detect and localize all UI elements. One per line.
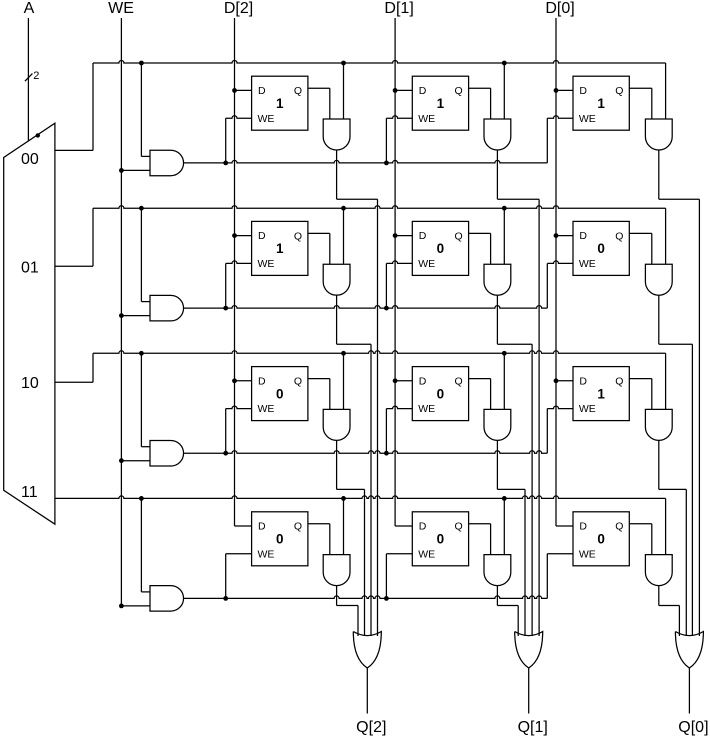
wire decoder output 1 stub bbox=[55, 265, 93, 267]
wire row 2 col 1 elbow to bus bbox=[497, 488, 525, 490]
svg-text:Q[1]: Q[1] bbox=[518, 719, 548, 736]
svg-text:WE: WE bbox=[418, 113, 435, 125]
wire row 0 col 0 WE pin link bbox=[226, 116, 252, 119]
wire D[2] to row 3 D pin bbox=[235, 525, 252, 527]
wire row 0 col 0 select drop bbox=[343, 63, 345, 119]
svg-text:10: 10 bbox=[21, 375, 39, 392]
wire row 3 col 0 WE pin link bbox=[226, 553, 252, 555]
wire row 3 col 0 elbow to bus bbox=[337, 605, 358, 607]
wire row 2 col 1 select drop bbox=[503, 353, 505, 409]
svg-text:Q: Q bbox=[455, 230, 463, 242]
wire row 1 write-enable line bbox=[184, 306, 548, 309]
svg-text:D: D bbox=[419, 230, 427, 242]
wire row 3 select line bbox=[55, 496, 666, 499]
wire row 1 col 0 bus vertical to OR bbox=[370, 344, 372, 636]
AND gate row 1 col 2 output gate bbox=[645, 264, 672, 295]
wire row 0 select line bbox=[93, 61, 666, 64]
node row 3 WE line col 0 junction bbox=[223, 596, 228, 601]
AND gate row 1 col 0 output gate bbox=[323, 264, 350, 295]
wire D[0] to row 1 D pin bbox=[556, 235, 573, 237]
wire row 1 col 2 elbow to bus bbox=[659, 343, 693, 345]
input pin D[1] bbox=[384, 0, 413, 17]
svg-text:0: 0 bbox=[597, 241, 605, 256]
wire row 2 col 0 WE pin link bbox=[226, 406, 252, 409]
decoder output label 10 bbox=[21, 375, 39, 392]
wire D[2] data column bbox=[234, 18, 236, 526]
svg-text:D: D bbox=[419, 85, 427, 97]
wire row 0 col 2 WE pin link bbox=[547, 116, 573, 119]
node D[1] row 2 D junction bbox=[393, 378, 398, 383]
wire row 1 select line bbox=[93, 206, 666, 209]
wire row 1 col 1 elbow to bus bbox=[497, 343, 532, 345]
decoder output label 00 bbox=[21, 151, 39, 168]
wire row 1 col 0 elbow to bus bbox=[337, 343, 371, 345]
svg-text:WE: WE bbox=[258, 403, 275, 415]
wire row 2 col 1 WE riser bbox=[385, 409, 387, 454]
wire row 2 col 0 bus vertical to OR bbox=[364, 489, 366, 636]
D flip-flop U8 row 2 bit D[2] (value 0) bbox=[252, 367, 308, 421]
svg-text:Q: Q bbox=[294, 230, 302, 242]
svg-text:D: D bbox=[258, 375, 266, 387]
output pin Q[2] bbox=[356, 719, 386, 736]
wire Q[2] output bbox=[366, 668, 368, 714]
svg-text:WE: WE bbox=[418, 403, 435, 415]
wire row 1 col 1 WE riser bbox=[385, 263, 387, 308]
node row 2 select / col 1 gate junction bbox=[502, 351, 507, 356]
wire D[1] to row 1 D pin bbox=[395, 235, 412, 237]
wire row 3 col 1 select drop bbox=[503, 498, 505, 554]
wire row 3 col 1 WE pin link bbox=[386, 553, 412, 555]
svg-text:2: 2 bbox=[33, 70, 39, 82]
D flip-flop U10 row 2 bit D[0] (value 1) bbox=[573, 367, 629, 421]
AND gate row 3 write enable (WE AND select) bbox=[150, 586, 184, 612]
wire WE to row 3 write AND input bbox=[121, 605, 150, 607]
wire row 1 col 0 select drop bbox=[343, 208, 345, 264]
wire D[1] to row 3 D pin bbox=[395, 525, 412, 527]
wire row 1 col 0 gate output drop bbox=[336, 295, 338, 344]
svg-text:Q: Q bbox=[615, 85, 623, 97]
wire WE to row 0 write AND input bbox=[121, 169, 150, 171]
node row 1 select / col 1 gate junction bbox=[502, 206, 507, 211]
svg-text:Q: Q bbox=[615, 521, 623, 533]
wire row 3 col 2 gate output drop bbox=[658, 586, 660, 606]
wire row 2 col 0 Q out bbox=[308, 379, 330, 410]
wire D[0] data column bbox=[555, 18, 557, 526]
wire Q[0] output bbox=[688, 668, 690, 714]
wire row 1 col 1 bus vertical to OR bbox=[531, 344, 533, 636]
svg-text:0: 0 bbox=[437, 386, 445, 401]
wire row 1 col 2 WE riser bbox=[546, 263, 548, 308]
node WE column row 1 junction bbox=[119, 313, 124, 318]
wire row 1 col 0 WE riser bbox=[225, 263, 227, 308]
D flip-flop U3 row 0 bit D[1] (value 1) bbox=[412, 76, 468, 130]
wire D[0] to row 0 D pin bbox=[556, 89, 573, 91]
svg-text:WE: WE bbox=[579, 403, 596, 415]
svg-text:0: 0 bbox=[437, 532, 445, 547]
wire row 0 col 2 select drop bbox=[665, 63, 667, 119]
wire row 2 col 1 Q out bbox=[469, 379, 491, 410]
wire row 3 col 2 elbow to bus bbox=[659, 605, 680, 607]
wire row 2 col 1 bus vertical to OR bbox=[524, 489, 526, 636]
D flip-flop U6 row 1 bit D[1] (value 0) bbox=[412, 221, 468, 275]
wire row 0 col 1 select drop bbox=[503, 63, 505, 119]
svg-text:D: D bbox=[258, 85, 266, 97]
wire row 1 col 1 WE pin link bbox=[386, 261, 412, 264]
svg-text:A: A bbox=[24, 0, 35, 17]
svg-text:D: D bbox=[258, 230, 266, 242]
wire row 0 col 0 elbow to bus bbox=[337, 198, 378, 200]
wire row 2 col 2 WE riser bbox=[546, 409, 548, 454]
AND gate row 2 col 1 output gate bbox=[484, 409, 511, 440]
node row 0 select / col 1 gate junction bbox=[502, 61, 507, 66]
svg-text:WE: WE bbox=[579, 548, 596, 560]
wire row 0 col 2 bus vertical to OR bbox=[698, 199, 700, 636]
wire decoder output 2 riser bbox=[92, 353, 94, 382]
wire row 1 col 2 Q out bbox=[629, 233, 652, 264]
wire row 2 select line bbox=[93, 351, 666, 354]
svg-text:11: 11 bbox=[21, 484, 38, 501]
wire row 1 col 2 select drop bbox=[665, 208, 667, 264]
wire row 0 col 2 gate output drop bbox=[658, 150, 660, 199]
svg-text:Q: Q bbox=[615, 376, 623, 388]
wire row 1 col 2 bus vertical to OR bbox=[691, 344, 693, 636]
wire row 1 select drop to write AND bbox=[140, 208, 142, 301]
node row 2 WE line col 1 junction bbox=[384, 451, 389, 456]
wire decoder output 1 riser bbox=[92, 208, 94, 266]
wire row 3 col 0 gate output drop bbox=[336, 586, 338, 606]
AND gate row 0 col 2 output gate bbox=[645, 119, 672, 150]
node WE column row 3 junction bbox=[119, 604, 124, 609]
svg-text:Q: Q bbox=[455, 85, 463, 97]
node row 3 select / col 1 gate junction bbox=[502, 496, 507, 501]
node D[1] row 0 D junction bbox=[393, 88, 398, 93]
svg-text:D[2]: D[2] bbox=[224, 0, 253, 17]
wire row 2 col 0 elbow to bus bbox=[337, 488, 365, 490]
input pin D[2] bbox=[224, 0, 253, 17]
wire row 2 write-enable line bbox=[184, 451, 548, 453]
D flip-flop U4 row 0 bit D[0] (value 1) bbox=[573, 76, 629, 130]
wire row 0 write-enable line bbox=[184, 160, 548, 163]
svg-text:Q: Q bbox=[294, 521, 302, 533]
node D[2] row 0 D junction bbox=[232, 88, 237, 93]
wire row 3 col 2 bus vertical to OR bbox=[678, 606, 680, 637]
wire row 0 col 0 WE riser bbox=[225, 118, 227, 163]
wire row 0 col 2 Q out bbox=[629, 88, 652, 119]
wire row 3 col 1 Q out bbox=[469, 524, 491, 555]
wire row 3 col 0 Q out bbox=[308, 524, 330, 555]
node row 1 WE line col 0 junction bbox=[223, 306, 228, 311]
wire row 3 col 1 bus vertical to OR bbox=[517, 606, 519, 637]
input pin D[0] bbox=[545, 0, 574, 17]
svg-text:WE: WE bbox=[258, 258, 275, 270]
wire row 1 col 0 Q out bbox=[308, 233, 330, 264]
node row 0 select / write-AND junction bbox=[139, 61, 144, 66]
wire row 2 col 2 bus vertical to OR bbox=[685, 489, 687, 636]
D flip-flop U5 row 1 bit D[2] (value 1) bbox=[252, 221, 308, 275]
svg-text:Q: Q bbox=[294, 376, 302, 388]
node D[2] row 2 D junction bbox=[232, 378, 237, 383]
wire row 2 col 0 WE riser bbox=[225, 409, 227, 454]
output pin Q[1] bbox=[518, 719, 548, 736]
output pin Q[0] bbox=[678, 719, 708, 736]
wire row 3 col 1 gate output drop bbox=[496, 586, 498, 606]
wire row 3 write-enable line bbox=[184, 596, 548, 599]
wire row 3 col 1 WE riser bbox=[385, 554, 387, 599]
wire row 2 col 2 WE pin link bbox=[547, 406, 573, 409]
svg-text:Q: Q bbox=[294, 85, 302, 97]
wire row 1 col 2 WE pin link bbox=[547, 261, 573, 264]
svg-text:0: 0 bbox=[276, 386, 284, 401]
wire row 0 col 0 Q out bbox=[308, 88, 330, 119]
node WE column row 0 junction bbox=[119, 168, 124, 173]
AND gate row 0 col 1 output gate bbox=[484, 119, 511, 150]
node D[2] row 1 D junction bbox=[232, 233, 237, 238]
wire row 0 col 1 elbow to bus bbox=[497, 198, 539, 200]
wire row 1 col 1 gate output drop bbox=[496, 295, 498, 344]
wire row 2 col 0 gate output drop bbox=[336, 440, 338, 489]
node row 0 WE line col 0 junction bbox=[223, 161, 228, 166]
wire D[1] to row 2 D pin bbox=[395, 380, 412, 382]
OR gate output Q[2] (4-input) bbox=[353, 632, 381, 669]
svg-text:D[0]: D[0] bbox=[545, 0, 574, 17]
D flip-flop U12 row 3 bit D[1] (value 0) bbox=[412, 512, 468, 566]
wire row 3 col 0 WE riser bbox=[225, 554, 227, 599]
AND gate row 0 write enable (WE AND select) bbox=[150, 150, 184, 176]
node row 3 select / write-AND junction bbox=[139, 496, 144, 501]
svg-text:D: D bbox=[579, 230, 587, 242]
wire WE to row 2 write AND input bbox=[121, 460, 150, 462]
node D[0] row 1 D junction bbox=[554, 233, 559, 238]
AND gate row 1 col 1 output gate bbox=[484, 264, 511, 295]
wire A vertical bbox=[27, 18, 29, 141]
wire D[0] to row 2 D pin bbox=[556, 380, 573, 382]
node row 3 select / col 0 gate junction bbox=[341, 496, 346, 501]
svg-text:D: D bbox=[579, 85, 587, 97]
wire row 2 col 2 select drop bbox=[665, 353, 667, 409]
svg-text:0: 0 bbox=[276, 532, 284, 547]
D flip-flop U13 row 3 bit D[0] (value 0) bbox=[573, 512, 629, 566]
wire row 0 col 1 Q out bbox=[469, 88, 491, 119]
node row 1 select / col 0 gate junction bbox=[341, 206, 346, 211]
node row 0 WE line col 1 junction bbox=[384, 161, 389, 166]
D flip-flop U7 row 1 bit D[0] (value 0) bbox=[573, 221, 629, 275]
svg-text:01: 01 bbox=[21, 260, 39, 277]
svg-text:1: 1 bbox=[437, 96, 445, 111]
wire row 3 col 2 WE pin link bbox=[547, 553, 573, 555]
node row 3 WE line col 1 junction bbox=[384, 596, 389, 601]
svg-text:D: D bbox=[579, 521, 587, 533]
wire row 0 col 2 elbow to bus bbox=[659, 198, 700, 200]
svg-text:00: 00 bbox=[21, 151, 39, 168]
wire row 0 col 1 WE pin link bbox=[386, 116, 412, 119]
wire D[0] to row 3 D pin bbox=[556, 525, 573, 527]
svg-text:1: 1 bbox=[276, 241, 284, 256]
wire row 3 select drop to write AND bbox=[140, 498, 142, 592]
D flip-flop U2 row 0 bit D[2] (value 1) bbox=[252, 76, 308, 130]
svg-text:D: D bbox=[419, 375, 427, 387]
decoder select input dot bbox=[36, 133, 40, 137]
wire D[1] to row 0 D pin bbox=[395, 89, 412, 91]
svg-text:D: D bbox=[258, 521, 266, 533]
OR gate output Q[0] (4-input) bbox=[675, 632, 703, 669]
svg-text:WE: WE bbox=[579, 258, 596, 270]
svg-text:Q: Q bbox=[455, 376, 463, 388]
wire row 2 col 2 elbow to bus bbox=[659, 488, 687, 490]
wire decoder output 0 riser bbox=[92, 63, 94, 150]
wire decoder output 0 stub bbox=[55, 149, 93, 151]
svg-text:D: D bbox=[419, 521, 427, 533]
wire row 2 col 2 gate output drop bbox=[658, 440, 660, 489]
bus width slash /2 on A bbox=[25, 70, 40, 82]
svg-text:1: 1 bbox=[597, 386, 605, 401]
decoder output label 11 bbox=[21, 484, 38, 501]
wire row 3 col 1 elbow to bus bbox=[497, 605, 518, 607]
node row 1 select / write-AND junction bbox=[139, 206, 144, 211]
wire row 0 col 1 WE riser bbox=[385, 118, 387, 163]
svg-text:0: 0 bbox=[437, 241, 445, 256]
svg-text:Q[2]: Q[2] bbox=[356, 719, 386, 736]
AND gate row 2 write enable (WE AND select) bbox=[150, 441, 184, 467]
wire row 3 col 2 select drop bbox=[665, 498, 667, 554]
node WE column row 2 junction bbox=[119, 458, 124, 463]
wire row 2 select drop to write AND bbox=[140, 353, 142, 446]
node row 0 select / col 0 gate junction bbox=[341, 61, 346, 66]
svg-text:WE: WE bbox=[258, 113, 275, 125]
svg-text:1: 1 bbox=[276, 96, 284, 111]
AND gate row 0 col 0 output gate bbox=[323, 119, 350, 150]
wire Q[1] output bbox=[528, 668, 530, 714]
input pin WE bbox=[108, 0, 134, 17]
wire row 2 col 1 gate output drop bbox=[496, 440, 498, 489]
svg-text:1: 1 bbox=[597, 96, 605, 111]
wire row 0 col 1 gate output drop bbox=[496, 150, 498, 199]
wire WE to row 1 write AND input bbox=[121, 315, 150, 317]
svg-text:WE: WE bbox=[579, 113, 596, 125]
node D[0] row 0 D junction bbox=[554, 88, 559, 93]
wire decoder output 2 stub bbox=[55, 381, 93, 383]
svg-text:D: D bbox=[579, 375, 587, 387]
wire row 2 col 0 select drop bbox=[343, 353, 345, 409]
node row 2 select / write-AND junction bbox=[139, 351, 144, 356]
svg-text:WE: WE bbox=[108, 0, 134, 17]
svg-text:Q: Q bbox=[455, 521, 463, 533]
AND gate row 3 col 1 output gate bbox=[484, 555, 511, 586]
decoder U1 (2-to-4, address decoder) bbox=[4, 123, 55, 524]
svg-text:WE: WE bbox=[258, 548, 275, 560]
wire row 1 col 2 gate output drop bbox=[658, 295, 660, 344]
svg-text:D[1]: D[1] bbox=[384, 0, 413, 17]
decoder output label 01 bbox=[21, 260, 39, 277]
svg-text:WE: WE bbox=[418, 258, 435, 270]
AND gate row 1 write enable (WE AND select) bbox=[150, 295, 184, 321]
wire row 1 col 1 select drop bbox=[503, 208, 505, 264]
node row 1 WE line col 1 junction bbox=[384, 306, 389, 311]
svg-text:0: 0 bbox=[597, 532, 605, 547]
svg-text:Q: Q bbox=[615, 230, 623, 242]
AND gate row 2 col 2 output gate bbox=[645, 409, 672, 440]
wire row 0 col 2 WE riser bbox=[546, 118, 548, 163]
wire row 3 col 0 select drop bbox=[343, 498, 345, 554]
wire row 0 select drop to write AND bbox=[140, 63, 142, 156]
node D[0] row 2 D junction bbox=[554, 378, 559, 383]
node row 2 select / col 0 gate junction bbox=[341, 351, 346, 356]
wire row 1 col 0 WE pin link bbox=[226, 261, 252, 264]
D flip-flop U9 row 2 bit D[1] (value 0) bbox=[412, 367, 468, 421]
node D[1] row 1 D junction bbox=[393, 233, 398, 238]
OR gate output Q[1] (4-input) bbox=[515, 632, 543, 669]
wire row 0 col 0 gate output drop bbox=[336, 150, 338, 199]
wire D[2] to row 2 D pin bbox=[235, 380, 252, 382]
AND gate row 3 col 2 output gate bbox=[645, 555, 672, 586]
wire row 1 col 1 Q out bbox=[469, 233, 491, 264]
wire row 0 col 1 bus vertical to OR bbox=[538, 199, 540, 636]
node row 2 WE line col 0 junction bbox=[223, 451, 228, 456]
wire row 2 col 1 WE pin link bbox=[386, 406, 412, 409]
wire D[2] to row 1 D pin bbox=[235, 235, 252, 237]
wire row 0 col 0 bus vertical to OR bbox=[377, 199, 379, 636]
wire row 3 col 0 bus vertical to OR bbox=[357, 606, 359, 637]
wire row 2 col 2 Q out bbox=[629, 379, 652, 410]
AND gate row 2 col 0 output gate bbox=[323, 409, 350, 440]
wire D[2] to row 0 D pin bbox=[235, 89, 252, 91]
AND gate row 3 col 0 output gate bbox=[323, 555, 350, 586]
input pin A (2-bit address) bbox=[24, 0, 35, 17]
wire row 3 col 2 Q out bbox=[629, 524, 652, 555]
svg-text:Q[0]: Q[0] bbox=[678, 719, 708, 736]
wire D[1] data column bbox=[394, 18, 396, 526]
wire row 3 col 2 WE riser bbox=[546, 554, 548, 599]
svg-text:WE: WE bbox=[418, 548, 435, 560]
D flip-flop U11 row 3 bit D[2] (value 0) bbox=[252, 512, 308, 566]
wire WE column bbox=[120, 18, 122, 606]
